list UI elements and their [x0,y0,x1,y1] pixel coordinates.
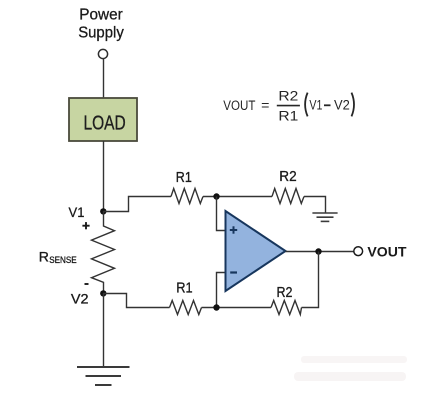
resistor RSENSE [92,211,115,293]
wire V2 to R1 bottom [103,294,170,308]
svg-text:V2: V2 [71,290,89,306]
wire node B to op-amp minus input [217,273,226,308]
wire R1 to node B [202,307,272,309]
resistor R2 top [272,189,304,204]
node V1 [100,208,106,214]
load box [69,98,137,141]
svg-text:R2: R2 [277,285,293,301]
wire LOAD to node V1 [103,141,105,211]
svg-text:R1: R1 [176,170,192,186]
svg-text:V2: V2 [334,98,350,114]
svg-text:R2: R2 [278,89,298,105]
svg-text:=: = [261,98,269,114]
svg-text:V1: V1 [69,204,85,220]
wire V2 to ground [103,293,105,367]
svg-text:VOUT: VOUT [367,244,407,259]
svg-text:R2: R2 [279,169,296,185]
svg-text:LOAD: LOAD [83,113,125,135]
minus polarity mark [85,283,89,285]
node A [213,193,219,199]
node V2 [100,290,106,296]
svg-text:R1: R1 [278,109,298,125]
wire node A to op-amp plus input [217,197,226,231]
resistor R2 bottom [271,301,302,315]
svg-text:R1: R1 [176,280,192,296]
wire R2 bottom to node OUT [302,252,319,308]
svg-text:V1: V1 [309,98,322,114]
node OUT [315,248,321,254]
wire op-amp output to VOUT [286,251,354,253]
node B [213,304,219,310]
svg-text:Power: Power [79,6,122,23]
label Power Supply [78,6,124,41]
wire R1 to node A [203,196,272,198]
wire V1 to R1 top [103,197,171,212]
plus polarity mark [82,222,89,229]
terminal VOUT [354,247,363,256]
resistor R1 bottom [170,301,202,315]
ground top right [312,213,337,221]
svg-text:VOUT: VOUT [223,98,255,114]
op-amp U1 [226,211,286,291]
wire terminal to LOAD [103,59,105,98]
op-amp minus pin mark [230,271,237,273]
op-amp plus pin mark [230,226,237,233]
wire R2 to ground top [304,197,326,214]
faint watermark remnant [294,356,407,381]
svg-text:Supply: Supply [78,25,124,42]
resistor R1 top [171,189,203,204]
power supply terminal [98,49,107,58]
ground [77,367,130,385]
formula VOUT = R2/R1 (V1-V2) [223,89,354,125]
